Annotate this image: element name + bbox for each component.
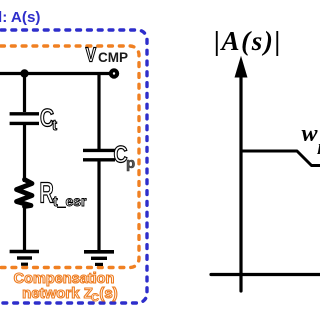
wire: top horizontal rail [0,72,110,75]
ground (right branch) [84,252,114,265]
svg-text:p: p [126,155,135,172]
node VCMP terminal [111,70,117,76]
wire: left branch middle segment [23,125,26,182]
wire: right branch lower segment [97,161,100,250]
svg-text:t: t [52,117,57,134]
plot: horizontal axis [211,273,320,276]
label wp (pole frequency) [302,121,320,155]
svg-text:V: V [86,44,97,66]
svg-text:network Z: network Z [22,285,93,302]
svg-text:|A(s)|: |A(s)| [214,26,282,56]
capacitor Cp [83,150,115,159]
label: Compensation network Zc(s) (orange) [14,271,118,304]
label Cp [114,141,136,172]
node junction dot [20,69,28,77]
svg-text:R: R [40,178,55,209]
blue dashed boundary: EA model A(s) [0,30,147,303]
capacitor Ct [10,114,39,124]
svg-text:l: A(s): l: A(s) [0,9,40,26]
svg-text:w: w [302,121,319,147]
wire: left branch upper segment [23,74,26,113]
label Rt_esr [40,178,88,209]
ground (left branch) [10,252,39,265]
wire: left branch lower segment [23,205,26,250]
svg-text:t_esr: t_esr [53,193,87,209]
svg-text:(s): (s) [99,285,117,302]
plot: vertical axis with arrow [235,58,247,292]
orange dashed boundary: compensation network Zc(s) [0,46,139,268]
label Ct [40,104,57,134]
svg-text:CMP: CMP [98,50,128,65]
label VCMP [86,44,129,66]
svg-text:C: C [91,292,99,304]
resistor Rt_esr (zigzag) [17,180,33,207]
plot: gain curve |A(s)| [240,151,320,166]
wire: right branch upper segment [97,74,100,150]
